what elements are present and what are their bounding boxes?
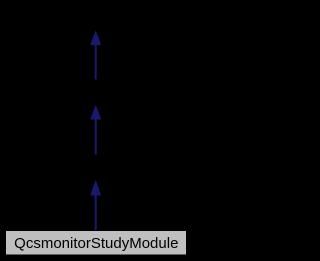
inheritance arrow 1 — [90, 30, 101, 80]
svg-text:QcsmonitorStudyModule: QcsmonitorStudyModule — [14, 235, 178, 252]
inheritance arrow 2 — [90, 105, 101, 156]
node intermediate class 2 (hidden, black on black) — [50, 155, 142, 180]
node base class (hidden, black on black) — [40, 5, 152, 30]
inheritance arrow 3 — [90, 180, 101, 231]
class box QcsmonitorStudyModule — [6, 231, 187, 256]
node intermediate class (hidden, black on black) — [55, 80, 137, 105]
